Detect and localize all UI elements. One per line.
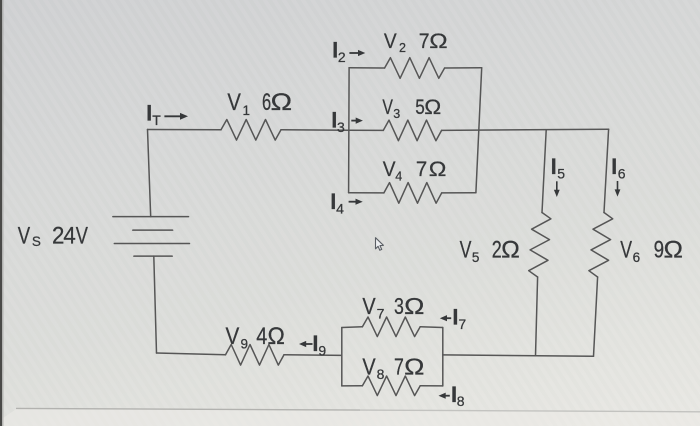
resistor V7	[362, 317, 420, 337]
wire bottom box to V6 bottom	[443, 355, 594, 356]
svg-text:Ω: Ω	[501, 237, 520, 263]
svg-text:V: V	[226, 323, 240, 350]
wire box right edge	[476, 68, 482, 193]
resistor V4	[384, 183, 442, 204]
svg-text:7: 7	[377, 305, 385, 321]
svg-text:9: 9	[241, 337, 249, 352]
arrow IT	[164, 113, 188, 120]
svg-text:V: V	[620, 237, 632, 263]
svg-text:7: 7	[458, 316, 466, 332]
svg-text:Ω: Ω	[404, 354, 424, 380]
svg-text:7: 7	[394, 354, 404, 380]
svg-text:Ω: Ω	[429, 28, 447, 52]
wire V6 branch down	[604, 129, 609, 212]
resistor V9	[226, 345, 285, 366]
wire V1 to box	[281, 129, 349, 131]
area below table edge	[0, 409, 700, 426]
wire bottom branch right	[442, 192, 476, 194]
svg-text:V: V	[76, 222, 89, 249]
table edge line	[16, 408, 360, 410]
svg-text:5: 5	[557, 166, 565, 182]
resistor V2	[385, 58, 445, 79]
wire bottom box left edge	[341, 328, 343, 386]
resistor V8	[362, 376, 420, 396]
battery Vs plate long top	[113, 216, 189, 218]
svg-text:6: 6	[633, 250, 641, 265]
wire V5 bottom down	[536, 277, 538, 356]
arrow I9	[299, 341, 313, 347]
arrow I8	[439, 393, 450, 399]
svg-text:4: 4	[336, 201, 344, 217]
arrow I3	[351, 118, 363, 124]
svg-text:9: 9	[318, 342, 326, 358]
resistor V1	[221, 120, 281, 141]
svg-text:8: 8	[377, 366, 385, 382]
svg-text:T: T	[152, 112, 161, 128]
wire V6 bottom down	[594, 277, 598, 356]
svg-text:I: I	[551, 154, 557, 179]
svg-text:2: 2	[399, 41, 406, 55]
wire bottom-left horizontal	[157, 353, 226, 355]
svg-text:2: 2	[338, 49, 346, 65]
svg-text:3: 3	[393, 107, 400, 121]
svg-text:7: 7	[419, 29, 430, 53]
svg-text:8: 8	[457, 393, 465, 409]
svg-text:V: V	[227, 88, 241, 115]
svg-text:V: V	[362, 294, 376, 320]
svg-text:5: 5	[472, 250, 480, 265]
svg-text:V: V	[18, 222, 31, 249]
arrow I4	[349, 199, 363, 205]
svg-text:9: 9	[654, 235, 664, 263]
svg-text:V: V	[382, 95, 393, 119]
svg-text:1: 1	[243, 103, 251, 118]
wire V7 branch right	[420, 326, 443, 329]
svg-text:7: 7	[416, 158, 427, 182]
svg-text:V: V	[460, 237, 472, 263]
arrow I7	[440, 315, 451, 321]
svg-text:S: S	[32, 234, 41, 249]
battery Vs plate long lower	[114, 243, 189, 245]
battery Vs plate short bottom	[134, 255, 172, 257]
arrow I5	[554, 181, 560, 197]
battery Vs bottom wire	[154, 256, 157, 353]
wire bottom box right edge	[442, 328, 444, 386]
svg-text:V: V	[383, 158, 396, 181]
svg-text:V: V	[384, 30, 397, 53]
arrow I6	[615, 181, 621, 197]
svg-text:Ω: Ω	[404, 294, 424, 320]
mouse cursor	[376, 238, 384, 251]
wire top-left horizontal	[148, 129, 222, 131]
svg-text:3: 3	[394, 294, 404, 320]
battery Vs top wire	[148, 130, 151, 217]
battery Vs plate short upper	[133, 229, 173, 231]
wire middle branch to V6 top	[442, 129, 609, 130]
svg-text:I: I	[611, 154, 617, 179]
resistor V6	[589, 213, 613, 278]
resistor V5	[529, 213, 551, 278]
wire middle branch left	[349, 129, 383, 131]
svg-text:6: 6	[618, 166, 626, 182]
resistor V3	[383, 120, 441, 141]
wire bottom branch left	[349, 192, 384, 194]
svg-text:4: 4	[63, 222, 76, 249]
svg-text:4: 4	[256, 322, 267, 349]
photo left dark edge	[0, 0, 2, 426]
wire V8 branch left	[342, 385, 363, 387]
svg-text:4: 4	[395, 169, 402, 183]
svg-text:Ω: Ω	[429, 157, 447, 181]
svg-text:Ω: Ω	[424, 95, 441, 119]
svg-text:Ω: Ω	[271, 88, 293, 115]
svg-text:Ω: Ω	[664, 237, 683, 264]
svg-text:3: 3	[337, 119, 345, 135]
arrow I2	[349, 50, 365, 56]
wire box left edge	[348, 68, 351, 193]
wire top branch right	[445, 67, 482, 69]
wire V9 to bottom box	[284, 354, 342, 357]
wire V5 branch down	[542, 130, 546, 213]
wire top branch left	[349, 67, 385, 69]
svg-text:V: V	[362, 354, 376, 380]
wire V7 branch left	[342, 326, 363, 329]
wire V8 branch right	[420, 385, 443, 387]
svg-text:Ω: Ω	[268, 324, 285, 350]
